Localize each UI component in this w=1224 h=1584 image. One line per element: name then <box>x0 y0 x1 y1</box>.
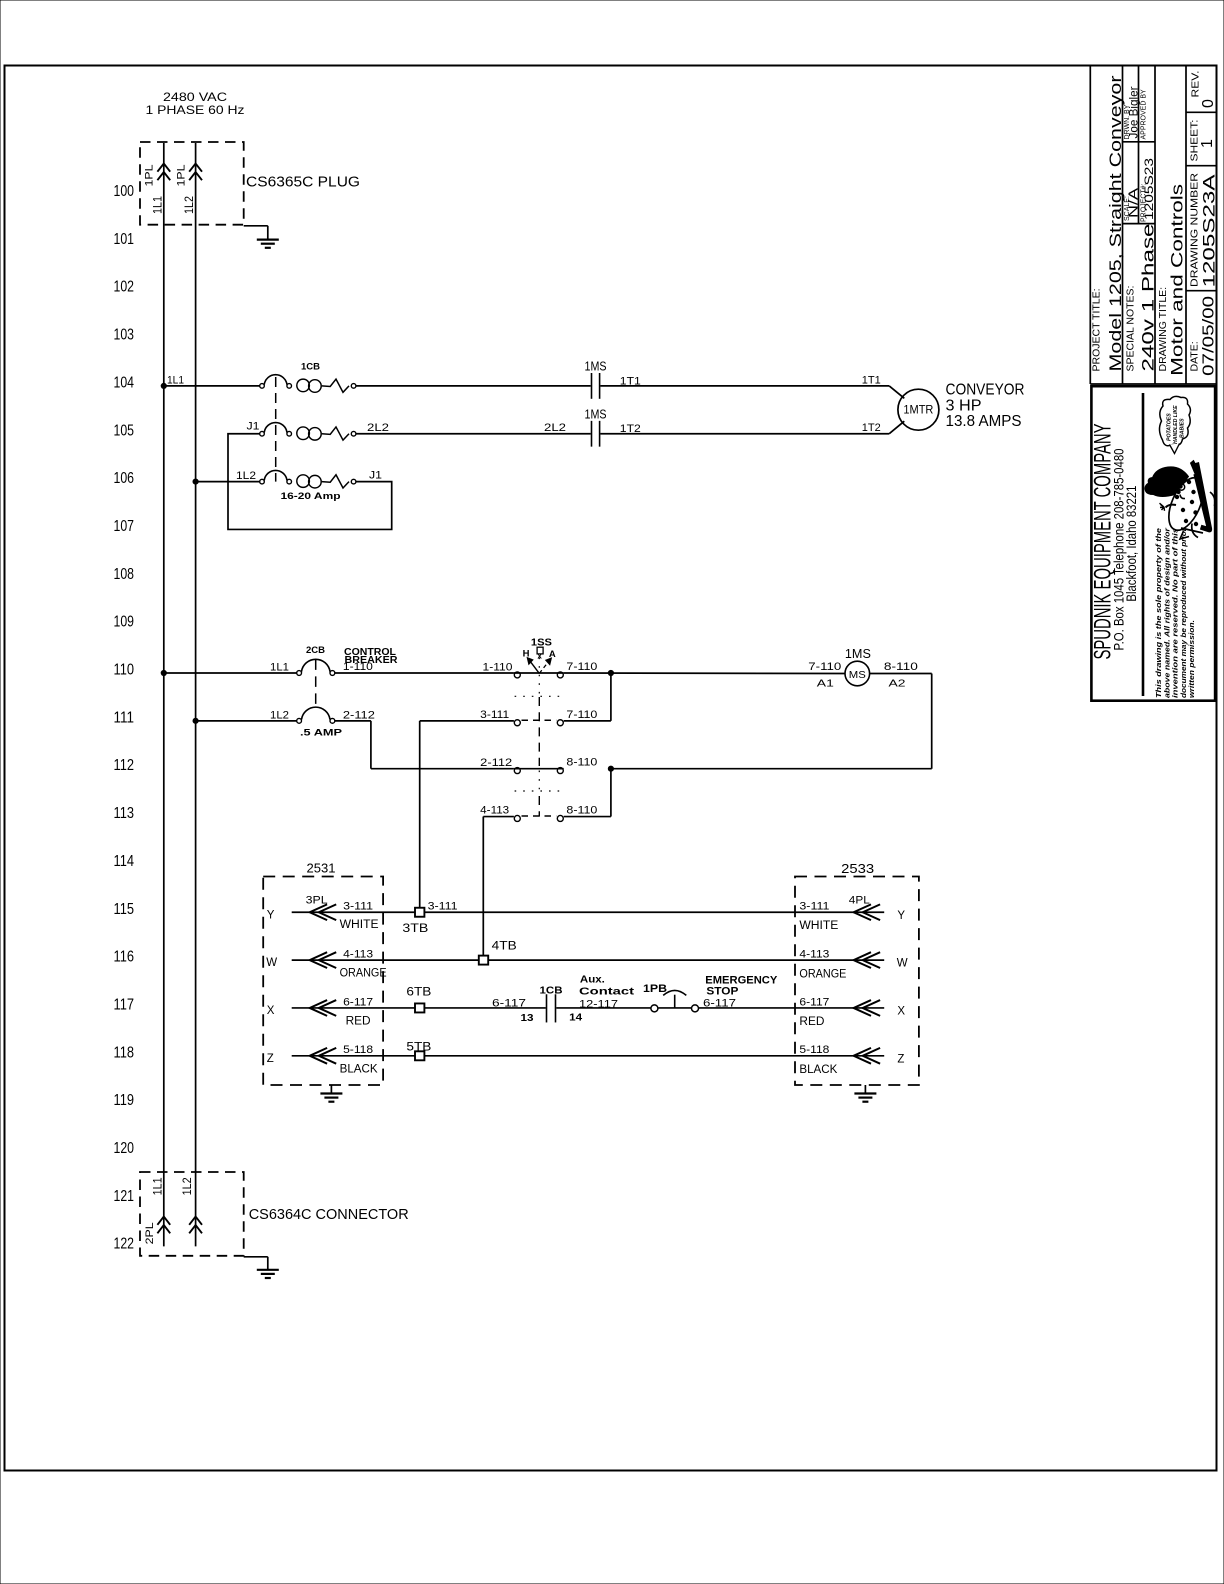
wire X row (2531 to 6TB) <box>292 1007 415 1009</box>
svg-text:ORANGE: ORANGE <box>799 968 846 980</box>
svg-text:W: W <box>897 958 908 970</box>
selector tie line vertical (dots and dashes) <box>538 658 540 695</box>
svg-text:104: 104 <box>114 374 135 391</box>
svg-text:2-112: 2-112 <box>343 709 375 721</box>
svg-text:1MS: 1MS <box>845 646 871 661</box>
svg-text:113: 113 <box>114 805 135 822</box>
svg-text:Model 1205, Straight Conveyor: Model 1205, Straight Conveyor <box>1106 75 1125 371</box>
connector 2533 dashed outline <box>795 877 919 1086</box>
wire Y row (2531 to 3TB) <box>292 911 415 913</box>
svg-text:x: x <box>537 652 542 661</box>
wire Z row (5TB to 2533) <box>424 1055 884 1057</box>
svg-text:114: 114 <box>114 853 135 870</box>
svg-text:1205S23A: 1205S23A <box>1200 174 1219 288</box>
wire X row (6TB to aux contact) <box>424 1007 545 1009</box>
svg-text:1: 1 <box>1199 139 1216 148</box>
terminal 3TB <box>415 908 424 917</box>
svg-text:117: 117 <box>114 996 135 1013</box>
svg-text:6-117: 6-117 <box>492 997 526 1009</box>
breaker tie bar (dashed) <box>275 377 277 482</box>
svg-text:3-111: 3-111 <box>480 709 509 721</box>
arrow chevrons X row left <box>310 1000 337 1016</box>
wire drop 112-113 <box>610 769 612 817</box>
svg-text:CONVEYOR: CONVEYOR <box>946 382 1025 399</box>
svg-text:2531: 2531 <box>307 861 336 875</box>
connector J2 CS6364C dashed outline <box>140 1172 244 1256</box>
svg-text:CS6364C CONNECTOR: CS6364C CONNECTOR <box>249 1207 409 1223</box>
svg-text:Contact: Contact <box>579 986 635 998</box>
svg-text:A1: A1 <box>817 678 834 690</box>
ground wire at 2531 <box>330 1085 332 1094</box>
selector handle arrow to A (dashed) <box>539 661 549 673</box>
svg-text:120: 120 <box>114 1140 135 1157</box>
svg-text:100: 100 <box>114 183 135 200</box>
ladder line numbers 100-122 <box>114 183 135 1253</box>
svg-text:REV.: REV. <box>1190 71 1202 98</box>
svg-text:POTATOES: POTATOES <box>1167 413 1173 441</box>
svg-text:3 HP: 3 HP <box>946 397 982 414</box>
wire line 110 left <box>164 672 297 674</box>
arrow chevrons W row right <box>854 952 881 968</box>
svg-text:121: 121 <box>114 1188 135 1205</box>
svg-text:1L2: 1L2 <box>184 196 196 214</box>
node junction 1L2 line 111 <box>193 718 198 723</box>
svg-text:Z: Z <box>267 1053 274 1065</box>
svg-text:3-111: 3-111 <box>799 901 829 913</box>
svg-text:16-20 Amp: 16-20 Amp <box>281 491 341 502</box>
selector contact line 113 (open) <box>514 815 563 821</box>
svg-text:7-110: 7-110 <box>808 661 841 673</box>
wire line 104 to motor <box>600 385 889 387</box>
wire drop line 111 to 3TB <box>419 721 421 908</box>
svg-text:ORANGE: ORANGE <box>340 968 387 980</box>
svg-text:240v 1 Phase: 240v 1 Phase <box>1139 224 1158 372</box>
svg-text:Joe Bigler: Joe Bigler <box>1127 87 1141 139</box>
svg-text:1CB: 1CB <box>301 361 320 372</box>
svg-text:A2: A2 <box>889 678 906 690</box>
selector contact line 110 (closed) <box>514 672 564 678</box>
label Aux. Contact <box>579 974 635 998</box>
svg-text:J1: J1 <box>369 470 382 482</box>
svg-text:WHITE: WHITE <box>799 920 838 932</box>
selector handle arrow to H (solid) <box>530 661 540 674</box>
svg-text:CS6365C PLUG: CS6365C PLUG <box>246 175 360 191</box>
connector pin arrows on 1L2 <box>189 1217 202 1234</box>
wire line 111 to corner / drop to 112 <box>335 720 371 722</box>
svg-text:2-112: 2-112 <box>480 757 512 769</box>
plug pin arrows 1PL on 1L2 <box>189 164 202 181</box>
svg-text:2L2: 2L2 <box>367 422 389 434</box>
connector 2531 dashed outline <box>263 877 383 1086</box>
svg-text:5TB: 5TB <box>406 1041 431 1053</box>
wire X row (1PB to 2533) <box>699 1007 884 1009</box>
svg-text:W: W <box>266 957 277 969</box>
wire W row (4TB to 2533) <box>488 959 884 961</box>
wire line 110 to coil <box>564 672 845 675</box>
wire line 111 left <box>196 720 297 722</box>
svg-text:1MS: 1MS <box>585 358 607 373</box>
svg-text:2L2: 2L2 <box>544 422 566 434</box>
svg-text:BLACK: BLACK <box>799 1064 837 1076</box>
wire line 111 selector branch <box>420 720 514 722</box>
svg-text:119: 119 <box>114 1092 135 1109</box>
selector operator square <box>537 647 543 654</box>
wire line 105 to motor <box>600 433 889 435</box>
wire line 110 to selector <box>335 672 514 674</box>
arrow chevrons Y row right <box>854 904 881 920</box>
breaker 2CB pole A (line 110) <box>297 659 335 675</box>
title block outline and dividers <box>1090 66 1217 385</box>
selector coupling dotted row (upper) <box>515 695 564 697</box>
svg-text:N/A: N/A <box>1126 188 1141 218</box>
svg-text:1L2: 1L2 <box>236 470 256 482</box>
svg-text:MS: MS <box>849 669 866 681</box>
svg-text:3TB: 3TB <box>402 923 428 935</box>
node junction line 110 / drop to 111 <box>608 670 613 675</box>
wire 1L1 from plug, vertical rail <box>163 143 165 1246</box>
wire line 113 right to drop <box>564 816 611 818</box>
svg-text:13: 13 <box>521 1012 534 1024</box>
svg-text:6-117: 6-117 <box>343 996 373 1008</box>
company block divider rule <box>1142 393 1145 696</box>
svg-text:PROJECT TITLE:: PROJECT TITLE: <box>1091 288 1103 371</box>
svg-text:101: 101 <box>114 231 135 248</box>
svg-text:3-111: 3-111 <box>343 901 373 913</box>
node junction line 112 / drop to 113 <box>608 766 613 771</box>
svg-text:14: 14 <box>569 1012 582 1024</box>
svg-text:Blackfoot, Idaho 83221: Blackfoot, Idaho 83221 <box>1124 486 1139 602</box>
svg-text:HANDLED LIKE: HANDLED LIKE <box>1173 405 1179 444</box>
svg-text:6TB: 6TB <box>406 987 431 999</box>
ground symbol at 2533 <box>854 1094 876 1102</box>
wire 1T1 diagonal into motor <box>889 386 904 398</box>
ground wire at 2533 <box>864 1085 866 1094</box>
svg-text:109: 109 <box>114 614 135 631</box>
svg-text:X: X <box>267 1005 275 1017</box>
wire Z row (2531 to 5TB) <box>292 1055 415 1057</box>
svg-text:1 PHASE 60 Hz: 1 PHASE 60 Hz <box>146 103 245 117</box>
wire Y row (3TB to 2533) <box>424 911 884 913</box>
svg-text:1-110: 1-110 <box>343 661 373 673</box>
svg-text:Motor and Controls: Motor and Controls <box>1168 184 1187 376</box>
svg-text:2480 VAC: 2480 VAC <box>163 90 227 104</box>
svg-text:7-110: 7-110 <box>566 661 597 673</box>
svg-text:1L2: 1L2 <box>182 1177 194 1195</box>
svg-text:5-118: 5-118 <box>343 1044 373 1056</box>
terminal 6TB <box>415 1003 424 1012</box>
svg-text:103: 103 <box>114 327 135 344</box>
wire drop 110-111 <box>610 673 612 721</box>
motor description CONVEYOR 3 HP 13.8 AMPS <box>946 382 1025 430</box>
company block border <box>1091 386 1215 701</box>
svg-text:2533: 2533 <box>841 862 874 876</box>
svg-text:X: X <box>897 1006 905 1018</box>
svg-text:1T2: 1T2 <box>862 422 881 434</box>
arrow chevrons X row right <box>854 1000 881 1016</box>
svg-text:7-110: 7-110 <box>566 709 597 721</box>
svg-text:8-110: 8-110 <box>566 805 597 817</box>
breaker 2CB pole B (line 111) <box>297 707 335 723</box>
connector pin arrows on 1L1 <box>157 1217 170 1234</box>
svg-text:115: 115 <box>114 901 135 918</box>
breaker 2CB tie bar (dashed) <box>315 659 317 706</box>
svg-text:3-111: 3-111 <box>428 901 458 913</box>
node junction 1L1 line 104 <box>161 383 166 388</box>
svg-text:6-117: 6-117 <box>799 996 829 1008</box>
pushbutton 1PB (NC emergency stop) <box>651 1005 658 1012</box>
arrow chevrons Y row left <box>310 904 337 920</box>
svg-text:1L1: 1L1 <box>270 661 289 673</box>
plug P1 CS6365C dashed outline <box>140 142 244 225</box>
wire return right side down to line 112 <box>931 674 933 769</box>
svg-text:118: 118 <box>114 1044 135 1061</box>
contact 1MS (line 105) <box>591 421 593 447</box>
svg-text:J1: J1 <box>247 420 260 432</box>
terminal 5TB <box>415 1051 424 1060</box>
svg-text:BABIES: BABIES <box>1180 418 1186 438</box>
wire from coil to right return <box>870 673 932 675</box>
aux contact 1CB (13-14) <box>546 994 548 1022</box>
svg-text:WHITE: WHITE <box>340 919 379 931</box>
svg-text:112: 112 <box>114 757 135 774</box>
svg-text:1PB: 1PB <box>643 983 667 995</box>
arrow chevrons Z row left <box>310 1048 337 1064</box>
svg-text:Y: Y <box>267 909 275 921</box>
svg-text:RED: RED <box>799 1016 824 1028</box>
svg-text:8-110: 8-110 <box>884 661 918 673</box>
wire line 105 to contact 1MS <box>356 433 591 435</box>
svg-text:1CB: 1CB <box>540 985 563 997</box>
svg-text:1-110: 1-110 <box>483 661 513 673</box>
svg-text:4TB: 4TB <box>492 941 517 953</box>
svg-text:2PL: 2PL <box>144 1222 156 1244</box>
company logo: potato in baby buggy with speech bubble <box>1145 396 1215 539</box>
svg-text:07/05/00: 07/05/00 <box>1201 296 1218 376</box>
svg-text:written permission.: written permission. <box>1187 620 1196 698</box>
svg-text:1L1: 1L1 <box>153 1177 165 1195</box>
svg-text:5-118: 5-118 <box>799 1044 829 1056</box>
wire X row (aux contact to 1PB) <box>556 1007 651 1009</box>
jumper wire J1 loop (lines 105-107) <box>228 434 392 530</box>
ground symbol at 2531 <box>320 1094 342 1102</box>
svg-text:SPECIAL NOTES:: SPECIAL NOTES: <box>1125 286 1137 372</box>
svg-text:DATE:: DATE: <box>1189 341 1201 371</box>
node junction 1L2 line 106 <box>193 479 198 484</box>
svg-text:0: 0 <box>1200 99 1217 108</box>
plug pin arrows 1PL on 1L1 <box>157 164 170 181</box>
svg-text:4-113: 4-113 <box>480 805 509 817</box>
svg-text:STOP: STOP <box>706 985 738 997</box>
svg-text:1T1: 1T1 <box>862 374 881 386</box>
wire 1L2 from plug, vertical rail <box>195 143 197 1246</box>
selector coupling dotted row (lower) <box>515 790 564 792</box>
svg-text:106: 106 <box>114 470 135 487</box>
svg-text:1205S23: 1205S23 <box>1142 158 1156 220</box>
selector contact line 112 (closed) <box>514 768 564 774</box>
wire line 104 to contact 1MS <box>356 385 591 387</box>
coil 1MS (MS) <box>845 661 870 686</box>
svg-text:4PL: 4PL <box>849 895 870 907</box>
svg-text:116: 116 <box>114 949 135 966</box>
svg-text:1MTR: 1MTR <box>903 403 933 417</box>
label CONTROL BREAKER <box>344 647 398 666</box>
node junction 1L1 line 110 <box>161 670 166 675</box>
svg-text:1MS: 1MS <box>585 406 607 421</box>
circuit breaker 1CB pole A (line 104) <box>260 375 356 393</box>
terminal 4TB <box>479 956 488 965</box>
svg-text:102: 102 <box>114 279 135 296</box>
svg-text:122: 122 <box>114 1236 135 1253</box>
svg-text:BLACK: BLACK <box>340 1063 378 1075</box>
svg-text:APPROVED BY: APPROVED BY <box>1141 89 1148 140</box>
contact 1MS (line 104) <box>591 373 593 399</box>
svg-text:1PL: 1PL <box>175 165 187 187</box>
svg-text:Aux.: Aux. <box>580 974 605 986</box>
wire line 104 left <box>164 385 260 387</box>
svg-text:107: 107 <box>114 518 135 535</box>
wire line 111 right to drop <box>564 720 611 722</box>
svg-text:4-113: 4-113 <box>799 949 829 961</box>
svg-text:.5 AMP: .5 AMP <box>300 728 343 739</box>
svg-text:Y: Y <box>897 910 905 922</box>
ground symbol at plug <box>257 240 279 248</box>
plug ground wire <box>244 225 268 227</box>
svg-text:Z: Z <box>897 1053 904 1065</box>
motor 1MTR circle <box>898 389 939 430</box>
svg-text:1L1: 1L1 <box>153 196 165 214</box>
svg-text:111: 111 <box>114 709 135 726</box>
legal disclaimer text <box>1154 527 1196 698</box>
svg-text:108: 108 <box>114 566 135 583</box>
ground symbol at connector <box>257 1270 279 1278</box>
svg-text:4-113: 4-113 <box>343 949 373 961</box>
circuit breaker 1CB pole C (line 106) <box>260 470 356 488</box>
connector ground wire <box>244 1256 268 1258</box>
svg-text:RED: RED <box>346 1015 371 1027</box>
circuit breaker 1CB pole B (line 105) <box>260 423 356 441</box>
label EMERGENCY STOP <box>705 974 778 997</box>
wire line 113 left branch down to 4TB <box>483 816 514 818</box>
svg-text:13.8 AMPS: 13.8 AMPS <box>946 413 1022 430</box>
wire 1T2 diagonal into motor <box>889 421 904 434</box>
svg-text:8-110: 8-110 <box>566 757 597 769</box>
svg-text:105: 105 <box>114 422 135 439</box>
svg-text:1PL: 1PL <box>144 165 156 187</box>
svg-text:1L2: 1L2 <box>270 709 289 721</box>
selector contact line 111 (open) <box>514 720 563 726</box>
arrow chevrons W row left <box>310 952 337 968</box>
svg-text:110: 110 <box>114 662 135 679</box>
supply voltage note 2480 VAC 1 PHASE 60 Hz <box>146 90 245 117</box>
svg-text:2CB: 2CB <box>306 645 325 656</box>
arrow chevrons Z row right <box>854 1048 881 1064</box>
wire line 106 left <box>196 481 260 483</box>
wire W row (2531 to 4TB) <box>292 959 479 961</box>
svg-text:1L1: 1L1 <box>167 374 184 386</box>
